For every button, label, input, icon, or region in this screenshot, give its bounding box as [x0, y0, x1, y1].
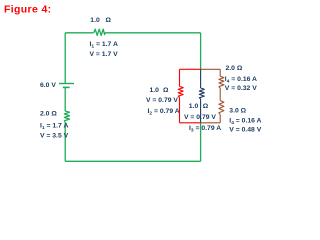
- svg-text:1.0: 1.0: [189, 103, 199, 110]
- svg-text:I4 = 0.16 A: I4 = 0.16 A: [225, 76, 257, 85]
- svg-text:Figure 4:: Figure 4:: [4, 4, 52, 16]
- svg-text:V = 0.79 V: V = 0.79 V: [146, 97, 178, 104]
- resistor R5 2.0 ohm (brown zigzag upper): [219, 76, 224, 88]
- svg-text:V = 0.79 V: V = 0.79 V: [184, 114, 216, 121]
- resistor R6 3.0 ohm (brown zigzag lower): [219, 101, 224, 115]
- svg-text:I3 = 0.79 A: I3 = 0.79 A: [189, 125, 221, 134]
- svg-text:Ω: Ω: [203, 103, 209, 110]
- wire: left vertical lower: [64, 122, 66, 161]
- battery B1 6.0 V: short plate: [63, 86, 70, 88]
- wire: left vertical middle (battery to R2): [64, 87, 66, 111]
- svg-text:I4 = 0.16 A: I4 = 0.16 A: [229, 118, 261, 127]
- wire: blue branch vertical lower: [200, 99, 202, 123]
- wire: brown branch vertical upper: [219, 69, 221, 76]
- svg-text:I1 = 1.7 A: I1 = 1.7 A: [40, 123, 68, 132]
- svg-text:6.0 V: 6.0 V: [40, 82, 56, 89]
- wire: left vertical upper (to battery): [64, 33, 66, 84]
- wire: red branch vertical upper: [179, 69, 181, 86]
- svg-text:I1 = 1.7 A: I1 = 1.7 A: [90, 41, 118, 50]
- node B: parallel bottom rail, red segment: [180, 122, 201, 124]
- svg-text:V = 0.32 V: V = 0.32 V: [225, 85, 257, 92]
- resistor R4 1.0 ohm (blue zigzag): [199, 88, 204, 99]
- svg-text:1.0: 1.0: [150, 87, 160, 94]
- wire: top horizontal (left part): [65, 32, 94, 34]
- wire: red branch vertical lower: [179, 97, 181, 123]
- wire: blue branch vertical upper: [200, 69, 202, 88]
- node A: parallel top rail, brown segment: [201, 68, 221, 70]
- svg-text:1.0: 1.0: [90, 17, 100, 24]
- svg-text:2.0 Ω: 2.0 Ω: [226, 65, 243, 72]
- svg-text:V = 1.7 V: V = 1.7 V: [90, 51, 119, 58]
- svg-text:3.0 Ω: 3.0 Ω: [229, 107, 246, 114]
- wire: top horizontal (right part): [105, 32, 201, 34]
- svg-text:Ω: Ω: [106, 17, 112, 24]
- svg-text:Ω: Ω: [163, 87, 169, 94]
- wire: right vertical lower (node B to bottom wire): [200, 123, 202, 162]
- wire: brown branch vertical lower: [219, 115, 221, 123]
- wire: brown branch vertical middle: [219, 88, 221, 101]
- svg-text:I2 = 0.79 A: I2 = 0.79 A: [148, 108, 180, 117]
- wire: bottom horizontal: [65, 160, 200, 162]
- svg-text:V = 0.48 V: V = 0.48 V: [229, 126, 261, 133]
- svg-text:2.0 Ω: 2.0 Ω: [40, 111, 57, 118]
- resistor R2 2.0 ohm (left, green zigzag): [64, 111, 69, 122]
- wire: right vertical upper (top wire to node A): [200, 33, 202, 70]
- svg-text:V = 3.5 V: V = 3.5 V: [40, 133, 69, 140]
- resistor R1 1.0 ohm (top, green zigzag): [94, 29, 105, 35]
- node A: parallel top rail, red segment: [180, 68, 201, 70]
- resistor R3 1.0 ohm (red zigzag): [178, 86, 183, 97]
- node B: parallel bottom rail, brown segment: [201, 122, 221, 124]
- battery B1 6.0 V: long plate: [59, 83, 74, 85]
